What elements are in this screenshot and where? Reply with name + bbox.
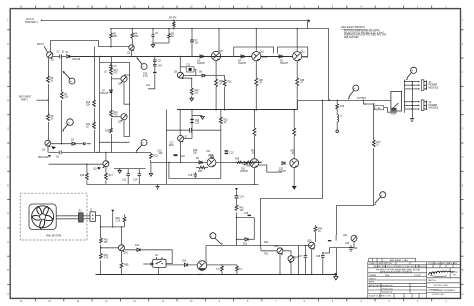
resistor R15 xyxy=(105,128,112,134)
wire bias jog xyxy=(234,47,274,56)
wire mid ground bus C xyxy=(87,184,259,186)
svg-text:R17: R17 xyxy=(109,175,114,177)
resistor R19 xyxy=(149,154,158,174)
transistor Q3 (lower input) xyxy=(42,140,51,151)
wire elbow A xyxy=(261,101,323,248)
ground hash on bus C xyxy=(156,184,160,189)
svg-text:1K: 1K xyxy=(171,36,174,38)
wire S2 to triac row xyxy=(166,264,197,266)
label cluster R38 xyxy=(193,150,198,155)
wire triac top riser xyxy=(205,245,207,263)
svg-text:D15: D15 xyxy=(182,261,187,263)
resistor R4 xyxy=(131,29,139,45)
svg-text:R44: R44 xyxy=(264,242,269,244)
zener D15 xyxy=(182,261,188,267)
ground for modules xyxy=(410,119,414,122)
fan blade circle xyxy=(32,206,54,228)
ground under Q13 xyxy=(292,186,296,189)
ground under R19 xyxy=(149,174,153,177)
capacitor C18 dark xyxy=(174,155,186,158)
svg-text:R19: R19 xyxy=(153,156,158,158)
svg-text:NEG INPUT: NEG INPUT xyxy=(19,97,32,99)
transistor Q16 xyxy=(119,245,129,255)
ground stub on rail B xyxy=(201,116,205,119)
transistor Q8 driver xyxy=(207,155,216,167)
svg-text:R65: R65 xyxy=(124,265,129,267)
svg-text:C28: C28 xyxy=(316,256,321,258)
ground at bus end xyxy=(334,273,338,280)
node bubble A xyxy=(63,71,76,84)
svg-text:D13: D13 xyxy=(243,244,248,246)
wire fan leads xyxy=(56,215,78,217)
left box column 1 xyxy=(94,47,96,153)
transistor Q9 (VAS) xyxy=(212,51,224,61)
capacitor C22 xyxy=(225,151,235,155)
resistor R72 on elbow B xyxy=(372,140,381,148)
fan blades xyxy=(32,207,53,229)
mid column vertical wire xyxy=(166,110,168,185)
resistor R5 on V1 xyxy=(47,76,54,84)
svg-text:2.2K: 2.2K xyxy=(116,221,121,223)
title block xyxy=(368,258,461,298)
left box column 2 xyxy=(99,57,101,153)
node bubble D with leader xyxy=(135,140,147,154)
zone tick marks right edge xyxy=(461,30,464,285)
svg-text:39K: 39K xyxy=(134,36,139,38)
wire lower link row xyxy=(168,130,221,178)
transistor Q2 xyxy=(127,45,135,55)
wire Q12 emitter to bus C xyxy=(253,168,255,185)
transistor Q11 xyxy=(293,52,309,61)
resistor R43 drop to bus xyxy=(236,265,244,274)
wire elbow B xyxy=(364,100,374,104)
capacitor C8 C9 column xyxy=(153,56,162,73)
diode D7 xyxy=(100,90,113,95)
wire mirror cell bottom xyxy=(99,141,129,143)
svg-text:D: D xyxy=(462,213,464,216)
wire mid bus A (feedback row) xyxy=(49,153,151,163)
wire Q13 collector feed + resistor R58 xyxy=(291,109,296,158)
resistor R32 xyxy=(219,110,228,130)
capacitor C7 xyxy=(190,29,199,57)
node bubble B with leader xyxy=(62,119,73,132)
svg-text:R70: R70 xyxy=(340,106,345,108)
wire Q3 row xyxy=(51,140,91,150)
resistor R41 on column xyxy=(235,205,244,213)
wire Q11 collector feed xyxy=(296,29,298,52)
transistor Q21 xyxy=(328,235,357,241)
wire module 2 pins xyxy=(405,102,418,109)
power arrow into lower-left xyxy=(111,210,114,213)
wire riser from rail B to output rail xyxy=(297,101,299,110)
transistor Q10 xyxy=(252,52,268,61)
wire Q14 base row xyxy=(49,163,103,165)
wire module 1 pins xyxy=(405,82,418,89)
mirror column xyxy=(111,57,113,153)
svg-text:1K: 1K xyxy=(86,127,89,129)
wire Q16 base xyxy=(101,247,119,249)
wire input cell top xyxy=(51,41,129,53)
wire elbow B lower continuation xyxy=(336,248,338,275)
node label INPUT AUX (top left) xyxy=(25,18,42,24)
node label INPUT xyxy=(37,44,48,53)
resistor R22 xyxy=(223,76,232,111)
wire Q6 collector from rail xyxy=(179,56,181,72)
svg-text:POWER: POWER xyxy=(429,105,438,107)
diode D1 on rail xyxy=(66,52,95,61)
svg-text:Q20: Q20 xyxy=(307,241,312,243)
capacitor C27 xyxy=(298,245,307,275)
connector J2 module 1 xyxy=(421,80,438,91)
svg-text:16V: 16V xyxy=(158,66,163,68)
resistor R36 horizontal xyxy=(246,161,262,167)
capacitor C12 at Q6 (boxed) xyxy=(180,65,196,76)
capacitor C28 xyxy=(316,252,325,274)
resistor R7 on V2 xyxy=(60,92,68,100)
fan assembly dashed enclosure xyxy=(20,193,87,240)
svg-text:(FAN MOTOR): (FAN MOTOR) xyxy=(46,235,61,238)
notes text block xyxy=(341,25,387,39)
transistor Q6 xyxy=(174,72,184,80)
arrow into S2 xyxy=(143,263,153,265)
svg-text:1N4148: 1N4148 xyxy=(72,59,81,61)
resistor R2a between rails xyxy=(169,18,177,29)
svg-text:G: G xyxy=(7,128,9,131)
ground below C5 xyxy=(151,43,155,47)
ground label AMP GND xyxy=(38,156,51,160)
svg-text:B-1/707+-3100: B-1/707+-3100 xyxy=(434,285,449,287)
svg-text:Q11: Q11 xyxy=(301,52,306,54)
wire Q7 emitter down xyxy=(180,141,182,162)
svg-text:R22: R22 xyxy=(227,82,232,84)
resistor R63 on J1 column xyxy=(100,238,109,245)
svg-text:1N4937: 1N4937 xyxy=(280,63,289,65)
resistor R33 under Q8 xyxy=(196,166,208,173)
resistor R14 xyxy=(110,110,119,118)
transistor Q4 xyxy=(111,76,127,86)
svg-text:1000: 1000 xyxy=(169,145,175,147)
wire output rail xyxy=(298,100,391,102)
svg-text:H: H xyxy=(462,99,464,102)
svg-text:22K: 22K xyxy=(86,105,91,107)
svg-text:Q16: Q16 xyxy=(124,253,129,255)
wire mirror collector link xyxy=(124,75,130,104)
resistor R30 xyxy=(190,109,202,138)
junction dots rail R2 xyxy=(110,20,298,30)
wire J1 out xyxy=(95,216,100,275)
wire cap row under bus A xyxy=(114,168,146,170)
svg-text:JT Eng: JT Eng xyxy=(452,272,458,274)
svg-text:10K: 10K xyxy=(240,210,245,212)
capacitor C4 series on bus A xyxy=(56,151,62,159)
capacitor C14 xyxy=(133,169,141,185)
svg-text:RELAY: RELAY xyxy=(391,113,398,116)
wire module distribution vertical xyxy=(404,80,406,113)
wire thermal label text xyxy=(264,242,269,256)
svg-text:D75427+100: D75427+100 xyxy=(432,294,445,296)
svg-text:C22: C22 xyxy=(230,153,235,155)
svg-text:H: H xyxy=(7,99,9,102)
capacitor C24 on column xyxy=(235,195,245,199)
junction dots on rail xyxy=(93,56,94,57)
svg-text:R2 47K: R2 47K xyxy=(169,18,177,20)
svg-text:AUX IN: AUX IN xyxy=(26,18,34,21)
wire V2 column xyxy=(61,57,63,144)
wire vertical output node riser xyxy=(328,29,330,101)
wire Q6 base row with diode D8 xyxy=(183,72,224,80)
svg-text:INPUT: INPUT xyxy=(37,44,44,46)
transistor Q5 xyxy=(111,114,127,124)
resistor R45 xyxy=(314,225,323,234)
svg-text:4.7K: 4.7K xyxy=(104,258,109,260)
output rail junction dots xyxy=(322,100,323,101)
diode D3 on rail xyxy=(197,55,206,65)
svg-text:R15: R15 xyxy=(105,131,110,133)
wire thermal row xyxy=(207,245,312,247)
svg-text:C19: C19 xyxy=(188,175,193,177)
wire Q2 emitter to rail xyxy=(131,50,133,56)
svg-text:P.E.: P.E. xyxy=(453,275,457,277)
svg-text:C21: C21 xyxy=(206,151,211,153)
capacitor C29 xyxy=(345,243,358,252)
svg-text:C24: C24 xyxy=(240,197,245,199)
resistor R8 on V1 xyxy=(47,114,54,122)
svg-text:Quality Date: Quality Date xyxy=(382,291,392,294)
capacitor C2 (series) xyxy=(57,52,67,59)
wire C9 branch to left xyxy=(148,74,155,89)
wire feedback rail R1 xyxy=(42,20,308,22)
svg-text:APPROVED Released Date: APPROVED Released Date xyxy=(369,284,393,287)
resistor R6 to ground xyxy=(153,29,175,43)
label cluster R18 xyxy=(143,74,151,88)
svg-text:G: G xyxy=(462,128,464,131)
resistor R10 xyxy=(86,100,95,108)
svg-text:C20: C20 xyxy=(195,123,200,125)
node bubble G leader xyxy=(374,192,386,206)
fan motor frame xyxy=(29,204,56,230)
svg-text:C18: C18 xyxy=(181,156,186,158)
connector P2 (speaker switch) xyxy=(391,91,402,115)
svg-text:MJ15: MJ15 xyxy=(303,57,309,59)
resistor R62 xyxy=(116,215,126,227)
svg-text:AMP 2: AMP 2 xyxy=(21,99,29,102)
svg-text:1K: 1K xyxy=(50,81,53,83)
svg-text:Q10: Q10 xyxy=(260,52,265,54)
svg-text:D: D xyxy=(7,213,9,216)
capacitor C13 xyxy=(122,169,130,185)
svg-text:MJ15: MJ15 xyxy=(262,57,268,59)
svg-text:R33: R33 xyxy=(198,171,203,173)
transistor Q20 xyxy=(307,241,315,250)
ground on cap row xyxy=(118,169,122,174)
diode D11 xyxy=(240,162,249,174)
connector J3 module 2 xyxy=(421,100,438,111)
svg-text:C: C xyxy=(7,241,9,244)
wire Q16 out row xyxy=(125,250,173,264)
wire column x236 xyxy=(236,191,238,246)
wire P1 to J1 xyxy=(83,215,90,217)
zone tick marks top edge xyxy=(36,6,432,9)
thermal switch S2 xyxy=(153,255,166,267)
svg-text:22K: 22K xyxy=(64,97,69,99)
svg-text:1K: 1K xyxy=(224,122,227,124)
svg-text:(2): (2) xyxy=(429,102,432,104)
transistor Q1 xyxy=(47,52,55,62)
svg-text:APPR: APPR xyxy=(369,281,375,284)
diode D12 xyxy=(278,162,287,174)
svg-text:39K: 39K xyxy=(113,36,118,38)
svg-text:CHECK: CHECK xyxy=(369,278,376,280)
svg-text:1N4937: 1N4937 xyxy=(197,63,206,65)
svg-text:C: C xyxy=(462,241,464,244)
zone letters left xyxy=(7,19,9,297)
svg-text:TH1: TH1 xyxy=(264,254,269,256)
node bubble F leader xyxy=(210,233,223,245)
wire cluster links xyxy=(261,234,354,274)
resistor R3 xyxy=(110,29,118,48)
resistor R11 xyxy=(86,122,95,130)
zone numerals bottom xyxy=(20,300,448,303)
transistor Q7 xyxy=(178,135,192,142)
transistor Q13 xyxy=(290,159,299,168)
svg-text:THE INFORMATION CONTAINED IN T: THE INFORMATION CONTAINED IN THIS DWG IS… xyxy=(373,265,427,268)
connector J1 xyxy=(90,212,95,222)
diode D9 before Q8 xyxy=(196,158,202,164)
wire Q12 collector feed + resistor R57 xyxy=(251,109,256,158)
transistor Q12 xyxy=(250,159,259,168)
capacitor C19 xyxy=(188,172,197,179)
resistor R17 xyxy=(105,167,114,185)
svg-text:C27: C27 xyxy=(298,256,303,258)
resistor R70 + inductor L1 chain xyxy=(336,100,345,132)
svg-text:1K: 1K xyxy=(318,231,321,233)
node arrow on rail xyxy=(307,19,310,23)
svg-text:C12: C12 xyxy=(186,65,191,67)
ground under R20 xyxy=(190,97,194,101)
wire bottom ground bus xyxy=(96,274,336,276)
transistor Q19 xyxy=(288,256,299,263)
svg-text:F1 8A: F1 8A xyxy=(375,107,381,110)
svg-text:R48 AND R52.: R48 AND R52. xyxy=(344,36,359,39)
label box F1 xyxy=(375,106,397,113)
zone tick marks left edge xyxy=(7,30,10,285)
wire VAS collector feed xyxy=(218,29,220,52)
svg-text:PWR AMP 1: PWR AMP 1 xyxy=(25,21,38,24)
wire Q3 emitter to bus A xyxy=(47,146,49,152)
svg-text:Q21: Q21 xyxy=(343,235,348,237)
zone numerals top xyxy=(20,5,448,8)
resistor R64 on J1 column xyxy=(100,254,109,261)
svg-text:R36: R36 xyxy=(246,166,251,168)
wire S2 bottom pin to bus xyxy=(157,267,159,274)
svg-text:Drafting Date: Drafting Date xyxy=(382,287,393,290)
signature xyxy=(429,271,454,275)
svg-text:C25: C25 xyxy=(244,213,249,215)
svg-text:D14: D14 xyxy=(135,245,140,247)
fan hub xyxy=(40,214,46,220)
wire Q14 collector to bus A xyxy=(105,152,107,160)
diode D5 xyxy=(279,55,289,65)
svg-text:C14: C14 xyxy=(133,180,138,182)
svg-text:C13: C13 xyxy=(122,180,127,182)
wire feedback rail R2 xyxy=(111,28,329,30)
resistor R20 Q6 emitter xyxy=(183,78,200,97)
svg-text:1N4937: 1N4937 xyxy=(240,171,249,173)
svg-text:PWR AMP SCHEMATIC: PWR AMP SCHEMATIC xyxy=(433,289,456,292)
connector P1 xyxy=(79,213,84,222)
wire stub from arrow to R2 xyxy=(306,20,308,29)
svg-text:PART No: PART No xyxy=(428,279,436,282)
zone tick marks bottom edge xyxy=(36,298,432,301)
svg-text:SCALE 1:1 SHEET 1 OF 1: SCALE 1:1 SHEET 1 OF 1 xyxy=(369,295,391,298)
capacitor C21 xyxy=(206,151,214,158)
wire Q10 collector feed xyxy=(255,29,257,52)
svg-text:(2): (2) xyxy=(429,82,432,84)
wire Q10 emitter chain + resistor R47 xyxy=(255,61,264,110)
wire Q16 collector xyxy=(121,227,123,245)
svg-text:1N4148: 1N4148 xyxy=(100,93,109,95)
capacitor C3 in mirror cell xyxy=(104,63,117,74)
svg-text:POWER: POWER xyxy=(429,85,438,87)
svg-text:1N4937: 1N4937 xyxy=(238,63,247,65)
svg-text:PRE GND: PRE GND xyxy=(38,157,49,159)
svg-text:ZONE LTR DESCRIPTION: ZONE LTR DESCRIPTION xyxy=(369,263,392,265)
resistor R65 under Q16 xyxy=(120,251,129,274)
junction dots rail B xyxy=(215,109,216,110)
wire Q13 emitter to ground xyxy=(293,168,295,187)
wire mirror cell top xyxy=(99,63,129,76)
transistor Q14 xyxy=(93,161,109,171)
zener D14 xyxy=(135,245,140,252)
node bubble E leader to output rail xyxy=(348,85,359,100)
svg-text:R35: R35 xyxy=(235,159,240,161)
svg-text:CONTR No DATE APPD DATE APPD: CONTR No DATE APPD DATE APPD xyxy=(428,262,459,265)
wire Q12-Q13 base jog xyxy=(259,165,282,172)
svg-text:ADJ ELECTRONIC: ADJ ELECTRONIC xyxy=(341,25,365,29)
diode D4 on rail xyxy=(238,55,247,65)
node bubble C with leader to rail xyxy=(136,57,147,69)
resistor R35 horizontal xyxy=(235,159,246,164)
wire main rail y56 xyxy=(52,55,59,57)
wire Q7 collector drop xyxy=(179,110,181,135)
svg-text:22P: 22P xyxy=(159,153,164,155)
svg-text:REPRODUCED IN PART OR WHOLE: REPRODUCED IN PART OR WHOLE xyxy=(380,271,413,274)
resistor R16 xyxy=(80,164,88,185)
svg-text:Q18: Q18 xyxy=(274,246,279,248)
wire Q9 emitter chain xyxy=(215,61,224,110)
wire C28 top link xyxy=(323,252,330,254)
wire Q11 emitter chain + resistor R48 xyxy=(296,61,305,110)
svg-text:Q14: Q14 xyxy=(93,169,98,171)
wire hline bottom-left xyxy=(101,226,125,228)
diode loop branch xyxy=(236,213,255,246)
wire driver row xyxy=(151,162,208,164)
node label NEG INPUT xyxy=(19,97,49,102)
resistor R42 drop to bus xyxy=(216,264,223,274)
svg-text:9-17-98: 9-17-98 xyxy=(414,275,421,277)
svg-text:4.7K: 4.7K xyxy=(143,76,148,78)
svg-text:OUTPUT: OUTPUT xyxy=(357,98,367,100)
resistor R13 xyxy=(110,68,119,76)
svg-text:AMP SHEET + FAN: AMP SHEET + FAN xyxy=(390,259,408,262)
svg-text:10K: 10K xyxy=(104,242,109,244)
transistor Q18 xyxy=(274,246,283,255)
wire from arrow down xyxy=(112,212,114,227)
wire V1 (Q1 emitter column) xyxy=(48,58,50,141)
power arrow at column top xyxy=(235,188,238,191)
capacitor C5 to ground xyxy=(151,29,158,43)
wire rail B (output emitter bus) xyxy=(177,109,298,111)
